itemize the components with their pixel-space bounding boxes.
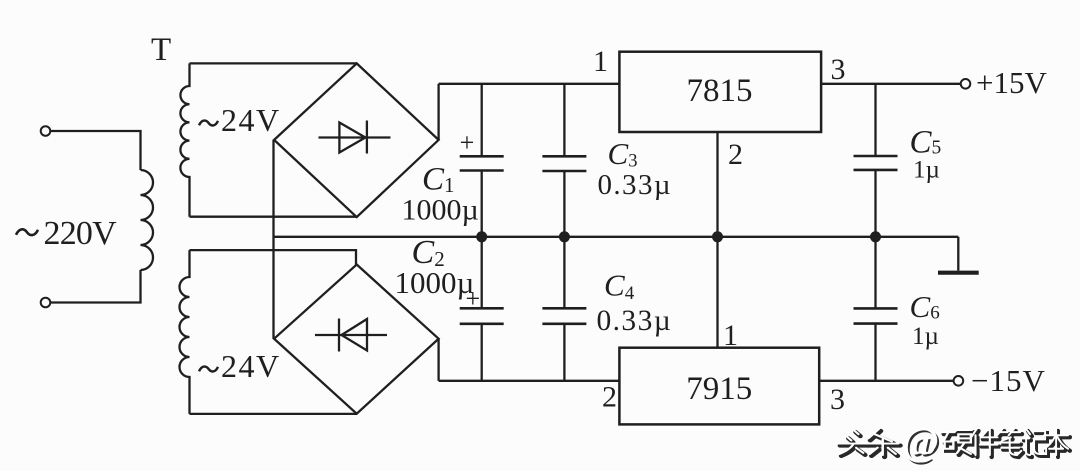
svg-text:T: T [151, 32, 171, 68]
diode D1 inside BR1: line [319, 136, 391, 138]
svg-text:24V: 24V [221, 102, 281, 138]
watermark char: at-sign [904, 421, 941, 466]
svg-text:1000µ: 1000µ [402, 193, 479, 226]
wire: center ground bus [274, 236, 959, 238]
watermark char: ben [1046, 431, 1070, 457]
wire: top rail to 7815 pin1 [439, 83, 620, 85]
regulator U2 7915 box [619, 348, 819, 425]
svg-text:1: 1 [593, 45, 608, 78]
capacitor C6 plates [854, 308, 898, 323]
terminal circle: AC input top [41, 126, 51, 136]
svg-text:3: 3 [830, 383, 845, 416]
capacitor C5 top lead [874, 84, 876, 156]
capacitor C3 bottom lead [563, 171, 565, 237]
svg-text:1µ: 1µ [913, 157, 940, 184]
diode D1 cathode bar [366, 121, 368, 154]
junction dot node at C5/C6 on bus [870, 231, 881, 242]
watermark char: jian [973, 431, 999, 457]
tilde of ~220V [16, 229, 38, 235]
wire: upper secondary top to bridge BR1 top vertex [190, 62, 357, 64]
watermark char: tiao [869, 431, 900, 457]
regulator U1 7815 box [619, 52, 821, 132]
capacitor C5 bottom lead [874, 170, 876, 237]
transformer T primary winding ~220V [141, 170, 154, 270]
capacitor C2 top lead [481, 237, 483, 308]
svg-text:−15V: −15V [971, 363, 1046, 398]
svg-text:C5: C5 [910, 125, 942, 161]
svg-text:0.33µ: 0.33µ [597, 305, 673, 337]
svg-text:1: 1 [723, 319, 738, 352]
terminal circle: AC input bottom [41, 298, 51, 308]
capacitor C1 bottom lead [481, 171, 483, 237]
capacitor C3 top lead [563, 84, 565, 157]
svg-text:7915: 7915 [686, 371, 752, 407]
wire: 7815 pin2 down to bus [716, 132, 718, 237]
wire: BR2 right vertex down to lower rail [437, 339, 439, 381]
wire: upper secondary bottom to bridge BR1 bottom vertex [190, 216, 357, 218]
wire: primary bottom to AC input bottom [51, 270, 141, 303]
capacitor C6 top lead [874, 237, 876, 309]
transformer secondary upper winding ~24V [180, 63, 189, 216]
svg-text:+15V: +15V [976, 65, 1047, 100]
svg-text:3: 3 [831, 53, 846, 86]
diode D2 inside BR2: line [315, 334, 387, 336]
watermark char: tou [840, 432, 869, 456]
diode D2 cathode bar [338, 319, 340, 352]
terminal circle: -15V output [954, 376, 964, 386]
capacitor C4 bottom lead [563, 324, 565, 381]
tilde of upper ~24V [199, 121, 218, 126]
wire: DC vertical joining BR1 left and BR2 left vertices [272, 140, 274, 339]
bridge rectifier BR2 diamond [274, 265, 439, 414]
svg-text:24V: 24V [221, 348, 281, 384]
svg-text:220V: 220V [44, 215, 118, 252]
capacitor C1 plates [460, 156, 504, 170]
watermark char: ying [944, 432, 974, 456]
ground symbol bar [938, 271, 979, 275]
capacitor C4 plates [542, 308, 586, 324]
junction dot node at regulator common pins on bus [712, 231, 723, 242]
svg-text:+: + [465, 284, 480, 313]
diode D2 triangle [342, 319, 368, 351]
wire: lower secondary top to bridge BR2 top vertex [190, 250, 357, 264]
svg-text:C4: C4 [604, 267, 635, 303]
junction dot node at C1/C2 on bus [476, 231, 487, 242]
capacitor C6 bottom lead [874, 324, 876, 381]
svg-text:@: @ [902, 419, 939, 464]
wire: 7815 pin3 output rail to +15V terminal [821, 83, 960, 85]
svg-text:1000µ: 1000µ [395, 265, 475, 300]
wire: 7915 pin3 output rail to -15V terminal [819, 380, 953, 382]
svg-text:2: 2 [602, 381, 617, 414]
svg-text:C3: C3 [608, 136, 638, 171]
svg-text:7815: 7815 [687, 73, 753, 109]
wire: AC top to primary [51, 131, 141, 170]
terminal circle: +15V output [961, 79, 971, 89]
wire: 7915 pin1 up to bus [716, 237, 718, 348]
capacitor C3 plates [542, 156, 586, 171]
capacitor C2 plates [460, 308, 504, 324]
wire: lower rail to 7915 pin2 [439, 380, 620, 382]
junction dot node at C3/C4 on bus [559, 231, 570, 242]
watermark white offset highlight [838, 419, 1068, 464]
watermark char: ji [1024, 431, 1048, 457]
transformer secondary lower winding ~24V [180, 250, 190, 414]
capacitor C4 top lead [563, 237, 565, 308]
svg-text:2: 2 [728, 138, 743, 171]
watermark char: bi [999, 431, 1023, 457]
svg-text:+: + [460, 128, 475, 157]
svg-text:C1: C1 [422, 162, 455, 198]
diode D1 triangle [339, 123, 365, 153]
svg-text:C6: C6 [910, 289, 940, 324]
svg-text:0.33µ: 0.33µ [598, 169, 672, 201]
svg-text:1µ: 1µ [912, 323, 939, 350]
wire: bus right end down to ground [957, 237, 959, 271]
bridge rectifier BR1 diamond [274, 63, 439, 217]
capacitor C5 plates [854, 156, 898, 170]
wire: BR1 right vertex up to top rail [437, 84, 439, 140]
capacitor C2 bottom lead [481, 324, 483, 381]
tilde of lower ~24V [199, 367, 218, 372]
capacitor C1 top lead [481, 84, 483, 157]
wire: lower secondary bottom to bridge BR2 bottom vertex [190, 413, 357, 415]
